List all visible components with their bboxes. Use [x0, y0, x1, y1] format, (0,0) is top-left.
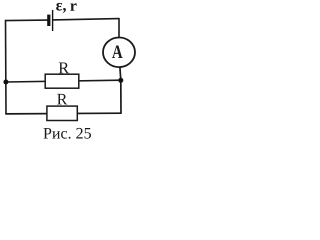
wire right (top corner down to ammeter) — [118, 18, 120, 38]
node A junction dot (left) — [3, 80, 8, 85]
wire left vertical — [5, 20, 8, 114]
battery cell ε,r : thin positive plate — [52, 10, 53, 31]
battery cell ε,r : thick negative plate — [47, 15, 50, 26]
wire top (battery to left corner) — [6, 19, 48, 22]
wire bottom horizontal — [5, 112, 121, 115]
wire right (node B down to bottom corner) — [120, 80, 122, 113]
caption Рис. 25 — [44, 128, 92, 139]
resistor R1 body — [45, 74, 79, 88]
node B junction dot (right) — [118, 78, 123, 83]
wire middle branch (node A to node B through R1) — [6, 80, 121, 82]
label R2 — [57, 94, 67, 105]
label ε, r — [56, 3, 66, 13]
ammeter A1 circle — [103, 38, 135, 68]
resistor R2 body — [47, 106, 77, 120]
wire right (ammeter down to node B) — [119, 67, 122, 80]
ammeter A1 letter — [112, 46, 122, 59]
label R1 — [59, 63, 69, 74]
wire top (battery to top-right corner) — [53, 19, 119, 20]
